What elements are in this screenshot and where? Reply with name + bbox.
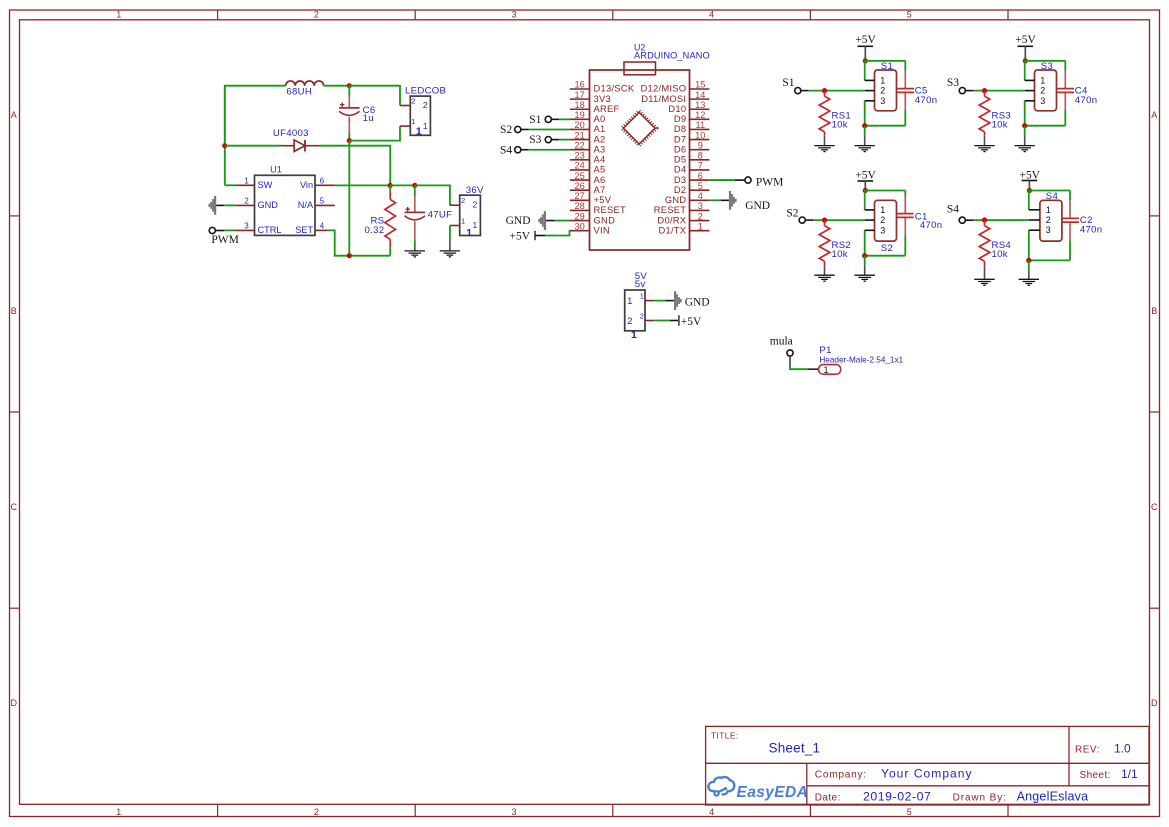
inductor 68UH [286, 81, 324, 98]
power +5V flag S3 [1015, 34, 1036, 61]
svg-text:+5V: +5V [855, 34, 876, 46]
svg-text:10k: 10k [832, 120, 848, 131]
svg-text:10: 10 [695, 130, 705, 140]
ground flag U1 pin2 [209, 196, 225, 215]
svg-text:1: 1 [461, 216, 465, 225]
node S3 input [947, 77, 973, 94]
svg-text:1: 1 [1046, 205, 1051, 215]
svg-text:11: 11 [696, 120, 706, 130]
svg-text:14: 14 [695, 90, 705, 100]
svg-text:U1: U1 [270, 164, 282, 174]
power +5V flag at U2 pin30 [509, 231, 545, 243]
svg-text:5v: 5v [635, 279, 646, 290]
ground flag GND at U2 pin4 [721, 191, 770, 212]
svg-text:UF4003: UF4003 [273, 128, 309, 139]
wire C6 node to LEDCOB pin1 [349, 126, 400, 141]
svg-text:1: 1 [640, 292, 644, 301]
svg-text:1: 1 [473, 220, 478, 230]
junction S4 +5V [1027, 188, 1032, 193]
junction S1 gate [822, 88, 827, 93]
wire [864, 230, 866, 255]
svg-text:23: 23 [574, 151, 584, 161]
svg-text:2: 2 [461, 196, 465, 205]
svg-text:2: 2 [627, 316, 633, 327]
svg-text:REV:: REV: [1075, 744, 1100, 755]
svg-text:S4: S4 [1046, 191, 1059, 202]
junction S3 gate [982, 88, 987, 93]
svg-text:12: 12 [695, 110, 705, 120]
wire to LEDCOB pin2 [349, 86, 400, 106]
capacitor C4 470n [1057, 71, 1098, 111]
svg-text:1: 1 [631, 329, 637, 341]
svg-text:3: 3 [880, 225, 885, 235]
svg-text:25: 25 [574, 171, 584, 181]
wire [790, 365, 808, 370]
svg-text:1: 1 [627, 296, 633, 307]
svg-text:+5V: +5V [681, 316, 702, 328]
wire [709, 179, 735, 181]
EasyEDA logo [708, 777, 808, 801]
svg-text:S3: S3 [947, 77, 959, 89]
svg-text:S1: S1 [881, 61, 893, 72]
wire Vin to 36V pin2 [415, 185, 450, 205]
wire [864, 101, 866, 126]
svg-text:1: 1 [411, 117, 415, 126]
svg-text:SW: SW [258, 180, 273, 190]
wire [545, 231, 570, 236]
svg-text:0.32: 0.32 [365, 225, 385, 236]
node PWM left [209, 227, 239, 246]
svg-text:1: 1 [116, 807, 121, 817]
svg-text:3: 3 [511, 807, 516, 817]
svg-text:+5V: +5V [509, 231, 530, 243]
svg-text:S2: S2 [786, 207, 798, 219]
wire [904, 111, 906, 126]
svg-text:470n: 470n [915, 95, 938, 106]
wire [904, 61, 906, 71]
wire [813, 219, 865, 221]
svg-text:TITLE:: TITLE: [711, 731, 739, 741]
power +5V flag S2 [855, 170, 876, 191]
U2 left pins 16-30 [570, 80, 635, 236]
wire [529, 149, 570, 151]
svg-text:26: 26 [574, 181, 584, 191]
wire [1028, 191, 1031, 210]
op-amp U1 [236, 164, 335, 235]
wire [864, 191, 867, 210]
svg-text:2: 2 [698, 211, 703, 221]
wire C6 top lead [348, 86, 350, 96]
svg-text:AngelEslava: AngelEslava [1017, 790, 1089, 804]
transistor S1 [865, 61, 897, 111]
wire top net [225, 86, 286, 186]
svg-text:2: 2 [411, 96, 415, 105]
svg-text:mula: mula [770, 336, 793, 348]
svg-text:1: 1 [1040, 75, 1045, 85]
junction S3 bottom [1022, 123, 1027, 128]
junction bottom net [347, 253, 352, 258]
wire diode anode [225, 145, 281, 147]
svg-text:S3: S3 [1041, 61, 1053, 72]
svg-text:1: 1 [698, 221, 703, 231]
svg-text:S1: S1 [529, 114, 541, 126]
rev text [1075, 741, 1131, 755]
svg-text:16: 16 [574, 80, 584, 90]
svg-text:1.0: 1.0 [1114, 741, 1131, 755]
wire [973, 90, 1024, 92]
svg-text:Vin: Vin [300, 180, 313, 190]
svg-text:36V: 36V [466, 185, 484, 196]
wire 47UF bottom [414, 240, 416, 248]
resistor RS2 10k [819, 220, 851, 265]
wire [1069, 191, 1071, 201]
junction S3 +5V [1023, 58, 1028, 63]
svg-text:S1: S1 [782, 77, 794, 89]
svg-text:15: 15 [695, 80, 705, 90]
svg-text:3: 3 [1046, 225, 1051, 235]
svg-text:4: 4 [709, 10, 714, 20]
node mula [770, 336, 793, 365]
wire [1029, 259, 1070, 261]
ground RS1 [814, 136, 834, 152]
svg-text:B: B [11, 306, 17, 316]
svg-text:9: 9 [698, 140, 703, 150]
svg-text:S4: S4 [947, 204, 959, 216]
title block frame [706, 726, 1149, 805]
svg-text:68UH: 68UH [286, 87, 312, 98]
svg-text:+5V: +5V [855, 170, 876, 182]
wire diode cathode to Vin net [320, 146, 390, 186]
svg-text:2: 2 [244, 197, 248, 206]
svg-text:N/A: N/A [298, 200, 314, 210]
wire [1064, 111, 1066, 126]
svg-text:5: 5 [907, 10, 912, 20]
svg-text:2: 2 [640, 311, 644, 320]
node S1 to U2 [529, 114, 559, 126]
wire [1029, 190, 1070, 192]
svg-text:GND: GND [685, 297, 710, 309]
svg-text:28: 28 [574, 201, 584, 211]
wire SW net left vertical [224, 86, 226, 146]
wire 36V pin1 down [449, 226, 451, 241]
svg-text:5: 5 [907, 807, 912, 817]
ground RS4 [974, 265, 994, 285]
svg-text:A: A [11, 110, 17, 120]
resistor RS4 10k [979, 220, 1011, 265]
svg-text:470n: 470n [920, 220, 943, 231]
ground flag GND at U2 pin29 [506, 211, 555, 230]
ground S1 bottom [855, 126, 875, 152]
svg-text:Drawn By:: Drawn By: [953, 793, 1007, 804]
wire [555, 220, 570, 222]
wire Vin net 2 [390, 184, 415, 186]
svg-text:1: 1 [880, 75, 885, 85]
svg-text:2: 2 [1046, 215, 1051, 225]
power +5V flag S1 [855, 34, 876, 61]
svg-text:13: 13 [695, 100, 705, 110]
wire [904, 236, 906, 256]
junction Vin 47UF [412, 183, 417, 188]
capacitor C6 1u [339, 96, 375, 134]
junction S4 bottom [1026, 258, 1031, 263]
svg-text:27: 27 [574, 191, 584, 201]
svg-text:Date:: Date: [815, 793, 841, 804]
svg-text:10k: 10k [992, 249, 1008, 260]
node PWM right [735, 177, 783, 189]
wire [559, 139, 570, 141]
resistor RS 0.32 [365, 191, 396, 248]
svg-text:S2: S2 [881, 243, 893, 254]
svg-text:ARDUINO_NANO: ARDUINO_NANO [634, 50, 710, 60]
junction top C6 [347, 83, 352, 88]
wire [973, 219, 1029, 221]
ground 36V [440, 240, 460, 257]
wire [529, 128, 570, 130]
svg-text:3: 3 [880, 96, 885, 106]
capacitor C5 470n [897, 71, 938, 111]
svg-text:Sheet:: Sheet: [1080, 770, 1111, 781]
svg-text:24: 24 [574, 161, 584, 171]
wire [865, 190, 905, 192]
svg-text:+5V: +5V [1019, 170, 1040, 182]
node S4 to U2 [500, 144, 529, 156]
ic U2 ARDUINO_NANO body [590, 43, 710, 250]
wire [1025, 60, 1065, 62]
ground flag GND at 5V pin1 [665, 291, 709, 310]
svg-text:2: 2 [423, 100, 428, 110]
svg-text:D1/TX: D1/TX [658, 224, 686, 235]
svg-text:B: B [1151, 306, 1157, 316]
svg-text:4: 4 [320, 222, 325, 231]
wire [654, 320, 670, 322]
svg-text:3: 3 [1040, 96, 1045, 106]
svg-text:470n: 470n [1075, 95, 1098, 106]
wire 47UF top [414, 185, 416, 195]
node S2 input [786, 207, 813, 223]
svg-text:1u: 1u [363, 113, 374, 124]
ground 47UF [405, 248, 425, 257]
wire [709, 199, 720, 201]
wire [1025, 125, 1066, 127]
capacitor 47UF [405, 196, 453, 241]
svg-text:30: 30 [574, 221, 584, 231]
svg-text:21: 21 [574, 130, 584, 140]
wire C6 node down to SET net [348, 141, 350, 256]
svg-text:2: 2 [473, 200, 478, 210]
svg-text:2: 2 [880, 86, 885, 96]
svg-text:Your Company: Your Company [881, 767, 973, 781]
svg-text:D: D [1151, 698, 1158, 708]
svg-text:CTRL: CTRL [258, 225, 282, 235]
svg-text:1: 1 [423, 121, 428, 131]
svg-text:2: 2 [314, 807, 319, 817]
chip glyph inside U2 [622, 111, 657, 146]
ground S2 bottom [855, 256, 875, 282]
U2 right pins 15-1 [641, 80, 710, 236]
wire [865, 60, 905, 62]
svg-text:Company:: Company: [815, 770, 867, 781]
transistor S2 [865, 200, 897, 254]
svg-text:3: 3 [511, 10, 516, 20]
junction S1 bottom [862, 123, 867, 128]
svg-text:3: 3 [698, 201, 703, 211]
svg-text:1: 1 [416, 126, 422, 138]
svg-text:C: C [11, 502, 18, 512]
wire [654, 300, 665, 302]
svg-text:1/1: 1/1 [1121, 767, 1138, 781]
power +5V flag S4 [1019, 170, 1040, 191]
svg-text:PWM: PWM [756, 177, 783, 189]
junction S2 bottom [862, 253, 867, 258]
ground RS2 [814, 265, 834, 281]
wire RS bottom [389, 248, 391, 256]
svg-text:SET: SET [295, 225, 313, 235]
power +5V flag at 5V pin2 [670, 315, 702, 328]
svg-text:+5V: +5V [1015, 34, 1036, 46]
wire [1024, 101, 1026, 126]
wire SW pin [225, 184, 236, 186]
svg-text:5: 5 [320, 197, 325, 206]
svg-text:A: A [1151, 110, 1157, 120]
ground S3 bottom [1015, 126, 1035, 152]
svg-text:LEDCOB: LEDCOB [405, 85, 446, 96]
transistor S3 [1025, 61, 1057, 111]
svg-text:D: D [11, 698, 18, 708]
svg-text:4: 4 [698, 191, 703, 201]
wire RS top [389, 185, 391, 191]
svg-text:19: 19 [574, 110, 584, 120]
sheet text [1080, 767, 1139, 781]
wire SET to bottom net [327, 230, 390, 255]
company text [815, 767, 973, 781]
svg-text:2: 2 [314, 10, 319, 20]
svg-text:1: 1 [466, 227, 472, 239]
date text [815, 790, 1089, 804]
wire Vin net [335, 184, 390, 186]
wire [1064, 61, 1066, 71]
svg-text:7: 7 [698, 161, 703, 171]
resistor RS3 10k [979, 91, 1011, 136]
svg-text:Sheet_1: Sheet_1 [769, 740, 821, 755]
junction diode anode [222, 143, 227, 148]
junction Vin RS [388, 183, 393, 188]
svg-text:10k: 10k [832, 249, 848, 260]
svg-text:10k: 10k [992, 120, 1008, 131]
svg-text:EasyEDA: EasyEDA [737, 784, 809, 801]
svg-text:6: 6 [698, 171, 703, 181]
svg-text:GND: GND [506, 215, 531, 227]
svg-text:4: 4 [709, 807, 714, 817]
connector 5V [625, 271, 655, 341]
svg-text:29: 29 [574, 211, 584, 221]
svg-text:2019-02-07: 2019-02-07 [863, 790, 931, 804]
ground RS3 [974, 136, 994, 152]
title text [711, 731, 820, 756]
diode UF4003 [273, 128, 320, 151]
wire [864, 61, 867, 81]
svg-text:22: 22 [574, 140, 584, 150]
svg-text:5: 5 [698, 181, 703, 191]
svg-text:GND: GND [258, 200, 279, 210]
svg-text:C: C [1151, 502, 1158, 512]
connector LEDCOB [400, 85, 446, 137]
svg-text:2: 2 [880, 215, 885, 225]
svg-text:1: 1 [116, 10, 121, 20]
wire CTRL pin [224, 229, 236, 231]
wire [1069, 240, 1071, 260]
node S1 input [782, 77, 808, 94]
svg-text:470n: 470n [1080, 225, 1103, 236]
svg-text:3: 3 [244, 222, 248, 231]
wire [865, 255, 906, 257]
connector 36V [450, 185, 484, 239]
resistor RS1 10k [819, 91, 851, 136]
svg-text:8: 8 [698, 151, 703, 161]
transistor S4 [1029, 191, 1062, 241]
svg-text:17: 17 [574, 90, 584, 100]
ground S4 bottom [1019, 260, 1039, 285]
node S4 input [947, 204, 973, 224]
junction C6 bottom [347, 138, 352, 143]
capacitor C1 470n [897, 196, 942, 236]
wire [559, 118, 570, 120]
junction S2 +5V [863, 188, 868, 193]
capacitor C2 470n [1061, 200, 1102, 240]
wire [808, 368, 819, 370]
svg-text:VIN: VIN [594, 224, 610, 235]
wire [1024, 61, 1027, 81]
svg-text:S2: S2 [500, 124, 512, 136]
header P1 Header-Male-2.54_1x1 [819, 345, 904, 375]
svg-text:1: 1 [244, 176, 248, 185]
junction S4 gate [982, 217, 987, 222]
svg-text:20: 20 [574, 120, 584, 130]
node S2 to U2 [500, 124, 529, 136]
wire C6 bottom lead [348, 133, 350, 141]
svg-text:1: 1 [880, 205, 885, 215]
wire [809, 90, 865, 92]
wire [904, 191, 906, 196]
svg-text:S3: S3 [529, 134, 541, 146]
svg-text:47UF: 47UF [428, 209, 453, 220]
junction S1 +5V [863, 58, 868, 63]
node S3 to U2 [529, 134, 559, 146]
svg-text:PWM: PWM [211, 234, 238, 246]
wire [865, 125, 906, 127]
svg-text:18: 18 [574, 100, 584, 110]
svg-text:2: 2 [1040, 86, 1045, 96]
wire U1 GND pin [224, 204, 236, 206]
wire inductor to C6 node [324, 85, 350, 87]
svg-text:S4: S4 [500, 144, 512, 156]
svg-text:1: 1 [823, 365, 828, 375]
wire [1028, 230, 1030, 260]
svg-text:Header-Male-2.54_1x1: Header-Male-2.54_1x1 [819, 355, 903, 364]
junction S2 gate [822, 218, 827, 223]
svg-text:GND: GND [745, 200, 770, 212]
svg-text:6: 6 [320, 176, 324, 185]
